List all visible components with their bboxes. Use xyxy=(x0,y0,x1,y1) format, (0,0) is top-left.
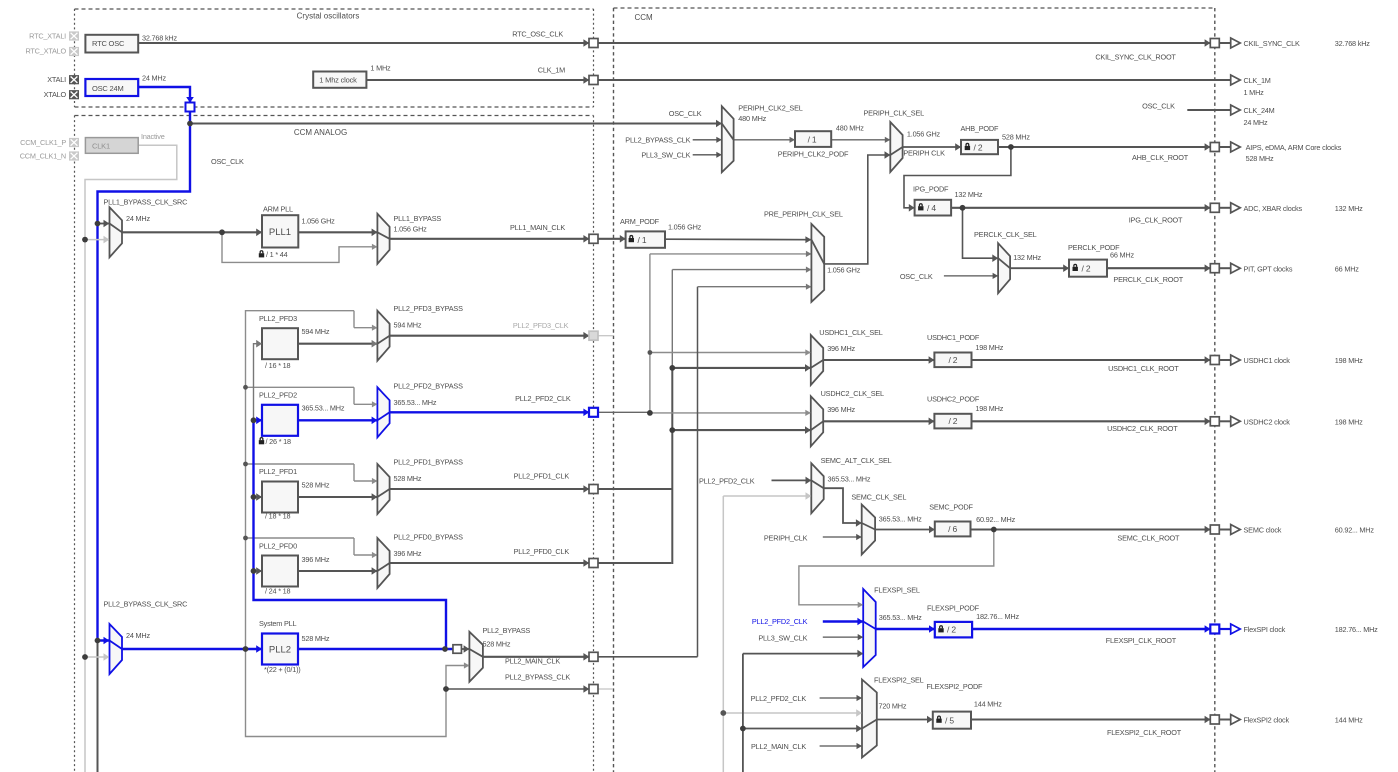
svg-text:USDHC2_CLK_ROOT: USDHC2_CLK_ROOT xyxy=(1107,424,1178,433)
svg-text:396 MHz: 396 MHz xyxy=(394,549,422,558)
svg-text:SEMC_ALT_CLK_SEL: SEMC_ALT_CLK_SEL xyxy=(821,456,892,465)
svg-text:132 MHz: 132 MHz xyxy=(955,190,983,199)
svg-text:144 MHz: 144 MHz xyxy=(1335,716,1363,725)
svg-text:CLK_24M: CLK_24M xyxy=(1244,106,1275,115)
svg-text:FlexSPI clock: FlexSPI clock xyxy=(1244,625,1286,634)
svg-text:365.53... MHz: 365.53... MHz xyxy=(879,515,922,524)
svg-text:PLL3_SW_CLK: PLL3_SW_CLK xyxy=(641,150,690,159)
svg-text:/ 16 * 18: / 16 * 18 xyxy=(265,361,291,370)
svg-text:365.53... MHz: 365.53... MHz xyxy=(879,613,922,622)
svg-text:PLL2_MAIN_CLK: PLL2_MAIN_CLK xyxy=(751,742,806,751)
svg-text:365.53... MHz: 365.53... MHz xyxy=(302,404,345,413)
svg-text:/ 1 * 44: / 1 * 44 xyxy=(266,250,288,259)
svg-text:528 MHz: 528 MHz xyxy=(302,634,330,643)
svg-text:PLL2_PFD2_CLK: PLL2_PFD2_CLK xyxy=(752,617,808,626)
svg-text:PLL2_PFD2_BYPASS: PLL2_PFD2_BYPASS xyxy=(394,382,464,391)
svg-text:PIT, GPT clocks: PIT, GPT clocks xyxy=(1244,264,1293,273)
svg-text:IPG_CLK_ROOT: IPG_CLK_ROOT xyxy=(1129,216,1183,225)
svg-text:USDHC1_CLK_SEL: USDHC1_CLK_SEL xyxy=(819,328,882,337)
svg-text:CCM ANALOG: CCM ANALOG xyxy=(294,128,347,137)
svg-text:RTC_XTALO: RTC_XTALO xyxy=(25,47,66,56)
svg-text:1.056 GHz: 1.056 GHz xyxy=(302,217,336,226)
svg-text:594 MHz: 594 MHz xyxy=(302,327,330,336)
svg-text:PLL2_PFD2: PLL2_PFD2 xyxy=(259,391,297,400)
svg-text:OSC_CLK: OSC_CLK xyxy=(900,272,933,281)
svg-text:24 MHz: 24 MHz xyxy=(126,631,150,640)
svg-text:528 MHz: 528 MHz xyxy=(1002,133,1030,142)
svg-text:24 MHz: 24 MHz xyxy=(126,214,150,223)
svg-text:PLL2: PLL2 xyxy=(269,644,291,655)
svg-text:CKIL_SYNC_CLK: CKIL_SYNC_CLK xyxy=(1244,39,1301,48)
svg-text:/ 2: / 2 xyxy=(1082,263,1091,273)
svg-text:USDHC2 clock: USDHC2 clock xyxy=(1244,417,1291,426)
svg-text:1.056 GHz: 1.056 GHz xyxy=(394,225,428,234)
svg-text:/ 5: / 5 xyxy=(945,715,954,725)
svg-text:FlexSPI2 clock: FlexSPI2 clock xyxy=(1244,716,1290,725)
svg-text:Crystal oscillators: Crystal oscillators xyxy=(297,12,360,21)
svg-text:AIPS, eDMA, ARM Core clocks: AIPS, eDMA, ARM Core clocks xyxy=(1246,143,1342,152)
svg-text:PLL2_PFD2_CLK: PLL2_PFD2_CLK xyxy=(699,476,755,485)
svg-text:PLL2_PFD3: PLL2_PFD3 xyxy=(259,314,297,323)
svg-text:/ 1: / 1 xyxy=(638,235,647,245)
svg-text:PLL2_PFD0: PLL2_PFD0 xyxy=(259,542,297,551)
svg-text:AHB_PODF: AHB_PODF xyxy=(961,124,999,133)
svg-text:PERCLK_CLK_ROOT: PERCLK_CLK_ROOT xyxy=(1113,275,1183,284)
svg-text:528 MHz: 528 MHz xyxy=(394,474,422,483)
svg-text:XTALO: XTALO xyxy=(44,90,67,99)
svg-text:PLL2_PFD1: PLL2_PFD1 xyxy=(259,467,297,476)
svg-text:198 MHz: 198 MHz xyxy=(1335,356,1363,365)
svg-text:ARM PLL: ARM PLL xyxy=(263,205,293,214)
svg-text:*(22 + (0/1)): *(22 + (0/1)) xyxy=(264,665,301,674)
svg-text:CCM_CLK1_N: CCM_CLK1_N xyxy=(20,152,66,161)
svg-text:AHB_CLK_ROOT: AHB_CLK_ROOT xyxy=(1132,153,1189,162)
svg-text:396 MHz: 396 MHz xyxy=(827,344,855,353)
svg-text:528 MHz: 528 MHz xyxy=(302,481,330,490)
svg-text:PLL1_BYPASS_CLK_SRC: PLL1_BYPASS_CLK_SRC xyxy=(104,198,188,207)
svg-text:PERIPH CLK: PERIPH CLK xyxy=(903,149,945,158)
svg-text:/ 2: / 2 xyxy=(948,416,957,426)
svg-text:/ 4: / 4 xyxy=(927,203,936,213)
svg-text:PLL2_PFD0_CLK: PLL2_PFD0_CLK xyxy=(514,547,570,556)
svg-text:PLL1_MAIN_CLK: PLL1_MAIN_CLK xyxy=(510,223,565,232)
svg-text:182.76... MHz: 182.76... MHz xyxy=(976,612,1019,621)
svg-text:OSC_CLK: OSC_CLK xyxy=(1142,102,1175,111)
svg-text:PLL2_PFD2_CLK: PLL2_PFD2_CLK xyxy=(515,394,571,403)
svg-text:PLL2_PFD1_BYPASS: PLL2_PFD1_BYPASS xyxy=(394,458,464,467)
svg-text:FLEXSPI2_PODF: FLEXSPI2_PODF xyxy=(927,682,984,691)
svg-text:396 MHz: 396 MHz xyxy=(302,555,330,564)
svg-text:1.056 GHz: 1.056 GHz xyxy=(827,266,861,275)
svg-text:USDHC1 clock: USDHC1 clock xyxy=(1244,356,1291,365)
svg-text:IPG_PODF: IPG_PODF xyxy=(913,184,949,193)
svg-text:SEMC_CLK_SEL: SEMC_CLK_SEL xyxy=(851,493,906,502)
svg-text:528 MHz: 528 MHz xyxy=(483,640,511,649)
svg-text:PERIPH_CLK2_SEL: PERIPH_CLK2_SEL xyxy=(738,104,802,113)
svg-text:132 MHz: 132 MHz xyxy=(1013,253,1041,262)
svg-text:60.92... MHz: 60.92... MHz xyxy=(976,515,1016,524)
svg-text:FLEXSPI_SEL: FLEXSPI_SEL xyxy=(874,586,920,595)
svg-text:480 MHz: 480 MHz xyxy=(738,114,766,123)
svg-text:PLL2_PFD0_BYPASS: PLL2_PFD0_BYPASS xyxy=(394,533,464,542)
svg-text:528 MHz: 528 MHz xyxy=(1246,154,1274,163)
svg-text:XTALI: XTALI xyxy=(47,75,66,84)
svg-text:PERIPH_CLK_SEL: PERIPH_CLK_SEL xyxy=(864,109,925,118)
svg-text:365.53... MHz: 365.53... MHz xyxy=(828,475,871,484)
svg-text:USDHC2_CLK_SEL: USDHC2_CLK_SEL xyxy=(821,389,884,398)
svg-text:/ 18 * 18: / 18 * 18 xyxy=(265,511,291,520)
svg-text:FLEXSPI2_SEL: FLEXSPI2_SEL xyxy=(874,675,924,684)
svg-text:66 MHz: 66 MHz xyxy=(1335,264,1359,273)
svg-text:32.768 kHz: 32.768 kHz xyxy=(142,34,177,43)
svg-text:PLL1_BYPASS: PLL1_BYPASS xyxy=(394,214,442,223)
svg-text:RTC_XTALI: RTC_XTALI xyxy=(29,32,66,41)
svg-text:24 MHz: 24 MHz xyxy=(1244,118,1268,127)
svg-text:132 MHz: 132 MHz xyxy=(1335,204,1363,213)
svg-text:SEMC_PODF: SEMC_PODF xyxy=(929,503,973,512)
svg-text:PERIPH_CLK: PERIPH_CLK xyxy=(764,533,808,542)
svg-text:/ 24 * 18: / 24 * 18 xyxy=(265,586,291,595)
svg-text:PLL2_BYPASS_CLK: PLL2_BYPASS_CLK xyxy=(505,673,570,682)
svg-text:PLL2_BYPASS_CLK: PLL2_BYPASS_CLK xyxy=(625,135,690,144)
svg-text:PLL2_PFD1_CLK: PLL2_PFD1_CLK xyxy=(514,472,570,481)
svg-text:PERCLK_CLK_SEL: PERCLK_CLK_SEL xyxy=(974,230,1037,239)
svg-text:OSC_CLK: OSC_CLK xyxy=(211,157,244,166)
svg-text:198 MHz: 198 MHz xyxy=(1335,417,1363,426)
svg-text:Inactive: Inactive xyxy=(141,132,165,141)
svg-text:/ 6: / 6 xyxy=(948,524,957,534)
svg-text:/ 2: / 2 xyxy=(948,355,957,365)
svg-text:1.056 GHz: 1.056 GHz xyxy=(668,223,702,232)
svg-text:CLK1: CLK1 xyxy=(92,142,110,151)
svg-text:1.056 GHz: 1.056 GHz xyxy=(907,130,941,139)
svg-text:PLL2_PFD3_BYPASS: PLL2_PFD3_BYPASS xyxy=(394,304,464,313)
svg-text:PLL2_BYPASS_CLK_SRC: PLL2_BYPASS_CLK_SRC xyxy=(104,600,188,609)
svg-text:1 MHz: 1 MHz xyxy=(1244,88,1265,97)
svg-text:PLL1: PLL1 xyxy=(269,227,291,238)
svg-text:CLK_1M: CLK_1M xyxy=(1244,76,1271,85)
svg-text:1 MHz: 1 MHz xyxy=(370,64,391,73)
svg-text:PLL2_PFD2_CLK: PLL2_PFD2_CLK xyxy=(751,694,807,703)
svg-text:ARM_PODF: ARM_PODF xyxy=(620,217,660,226)
svg-text:OSC_CLK: OSC_CLK xyxy=(669,109,702,118)
svg-text:FLEXSPI_CLK_ROOT: FLEXSPI_CLK_ROOT xyxy=(1106,636,1177,645)
svg-text:FLEXSPI_PODF: FLEXSPI_PODF xyxy=(927,604,980,613)
svg-text:480 MHz: 480 MHz xyxy=(836,123,864,132)
svg-text:60.92... MHz: 60.92... MHz xyxy=(1335,526,1375,535)
svg-text:CCM: CCM xyxy=(635,13,654,22)
svg-text:FLEXSPI2_CLK_ROOT: FLEXSPI2_CLK_ROOT xyxy=(1107,728,1182,737)
svg-text:594 MHz: 594 MHz xyxy=(394,321,422,330)
svg-text:OSC 24M: OSC 24M xyxy=(92,84,124,93)
svg-text:/ 26 * 18: / 26 * 18 xyxy=(266,437,292,446)
svg-text:PERIPH_CLK2_PODF: PERIPH_CLK2_PODF xyxy=(778,149,849,158)
svg-text:USDHC1_CLK_ROOT: USDHC1_CLK_ROOT xyxy=(1108,364,1179,373)
svg-text:396 MHz: 396 MHz xyxy=(827,405,855,414)
svg-text:PLL2_BYPASS: PLL2_BYPASS xyxy=(483,626,531,635)
svg-text:RTC OSC: RTC OSC xyxy=(92,39,125,48)
svg-text:System PLL: System PLL xyxy=(259,619,296,628)
svg-text:SEMC_CLK_ROOT: SEMC_CLK_ROOT xyxy=(1117,534,1180,543)
svg-text:PLL2_PFD3_CLK: PLL2_PFD3_CLK xyxy=(513,321,569,330)
svg-text:198 MHz: 198 MHz xyxy=(975,404,1003,413)
svg-text:24 MHz: 24 MHz xyxy=(142,74,166,83)
svg-text:SEMC clock: SEMC clock xyxy=(1244,526,1282,535)
svg-text:720 MHz: 720 MHz xyxy=(879,702,907,711)
svg-text:/ 1: / 1 xyxy=(808,135,817,145)
svg-text:CCM_CLK1_P: CCM_CLK1_P xyxy=(20,138,66,147)
svg-text:PLL2_MAIN_CLK: PLL2_MAIN_CLK xyxy=(505,657,560,666)
svg-text:1 Mhz clock: 1 Mhz clock xyxy=(319,75,357,84)
svg-text:USDHC2_PODF: USDHC2_PODF xyxy=(927,394,980,403)
svg-text:USDHC1_PODF: USDHC1_PODF xyxy=(927,333,980,342)
svg-text:32.768 kHz: 32.768 kHz xyxy=(1335,39,1370,48)
svg-text:CLK_1M: CLK_1M xyxy=(538,66,565,75)
svg-text:PLL3_SW_CLK: PLL3_SW_CLK xyxy=(758,633,807,642)
svg-text:/ 2: / 2 xyxy=(974,142,983,152)
svg-text:365.53... MHz: 365.53... MHz xyxy=(394,398,437,407)
svg-text:CKIL_SYNC_CLK_ROOT: CKIL_SYNC_CLK_ROOT xyxy=(1095,52,1176,61)
svg-text:ADC, XBAR clocks: ADC, XBAR clocks xyxy=(1244,204,1303,213)
svg-text:/ 2: / 2 xyxy=(947,625,956,635)
svg-text:198 MHz: 198 MHz xyxy=(975,343,1003,352)
svg-text:144 MHz: 144 MHz xyxy=(974,700,1002,709)
svg-text:182.76... MHz: 182.76... MHz xyxy=(1335,625,1378,634)
svg-text:PRE_PERIPH_CLK_SEL: PRE_PERIPH_CLK_SEL xyxy=(764,210,843,219)
svg-text:RTC_OSC_CLK: RTC_OSC_CLK xyxy=(512,30,563,39)
svg-text:66 MHz: 66 MHz xyxy=(1110,251,1134,260)
